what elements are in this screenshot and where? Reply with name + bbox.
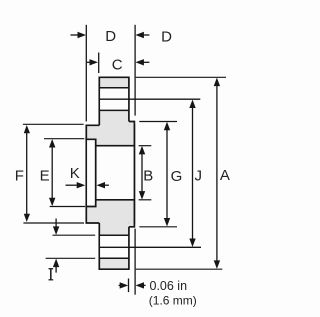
- extension line L2 (right face, top): [134, 25, 136, 116]
- rim upper groove line 2 / J top extension line: [99, 98, 200, 100]
- dimension I top arrow: [55, 219, 57, 227]
- F bottom extension line: [23, 222, 84, 224]
- A bottom extension line: [136, 268, 223, 270]
- dimension C left arrow: [87, 61, 90, 63]
- rim upper section: [99, 77, 129, 128]
- rim upper white band 2: [100, 100, 128, 110]
- bore bottom line: [96, 199, 134, 201]
- rim lower groove line 2 / J bottom extension line: [99, 246, 201, 248]
- svg-text:D: D: [161, 29, 172, 46]
- E bottom extension line: [50, 206, 85, 208]
- rim upper groove line 3: [99, 109, 129, 111]
- rim upper groove line 1: [99, 87, 129, 89]
- 0.06in right arrow: [144, 284, 146, 286]
- 0.06in step extension line (face, L2 bottom): [134, 229, 136, 295]
- 0.06in left arrow: [119, 284, 121, 286]
- rim lower white band 1: [100, 236, 128, 247]
- svg-text:0.06 in: 0.06 in: [150, 279, 188, 293]
- G top extension line: [139, 121, 177, 123]
- dimension G vertical line with arrows: [166, 130, 168, 218]
- dimension E vertical line with arrows: [51, 147, 53, 198]
- rim lower groove line 3: [99, 257, 129, 259]
- raised ring on right face (0.06in step): [129, 122, 135, 227]
- svg-text:E: E: [40, 168, 50, 185]
- dimension F vertical line with arrows: [26, 133, 28, 215]
- bore (white): [96, 147, 134, 199]
- dimension D left arrow: [71, 34, 79, 36]
- A top extension line: [136, 76, 226, 78]
- rim lower white band 2: [100, 248, 128, 257]
- svg-text:B: B: [143, 167, 153, 184]
- svg-text:K: K: [70, 165, 80, 182]
- recess on left face (white): [87, 140, 95, 206]
- rim lower section: [99, 218, 129, 269]
- svg-text:J: J: [195, 168, 203, 185]
- B top extension line: [139, 145, 152, 147]
- svg-text:A: A: [220, 167, 230, 184]
- dimension I bottom arrow: [55, 267, 57, 273]
- svg-text:(1.6 mm): (1.6 mm): [149, 293, 197, 307]
- G bottom extension line: [139, 226, 177, 228]
- dimension A vertical line with arrows: [216, 86, 218, 261]
- I bottom extension line: [46, 257, 96, 259]
- E top extension line: [44, 138, 84, 140]
- rim lower groove line 1: [99, 234, 129, 236]
- bore top line: [96, 145, 134, 147]
- dimension D right arrow: [144, 34, 150, 36]
- I top extension line: [53, 234, 96, 236]
- label I: [49, 269, 54, 280]
- 0.06in step extension line (rim edge): [128, 279, 130, 293]
- B bottom extension line: [139, 199, 152, 201]
- dimension C right arrow: [144, 61, 150, 63]
- dimension J vertical line with arrows: [192, 108, 194, 239]
- C extension tick: [98, 53, 100, 74]
- dimension K arrows: [66, 184, 78, 186]
- F top extension line: [23, 123, 84, 125]
- svg-text:F: F: [15, 168, 24, 185]
- rim upper white band 1: [100, 89, 128, 99]
- extension line L1 (left face, top): [85, 25, 87, 122]
- svg-text:G: G: [171, 168, 183, 185]
- svg-text:D: D: [105, 28, 116, 45]
- dimension B vertical line with arrows: [141, 154, 143, 192]
- flange body (center disc, section fill): [86, 125, 134, 223]
- svg-text:C: C: [112, 57, 123, 74]
